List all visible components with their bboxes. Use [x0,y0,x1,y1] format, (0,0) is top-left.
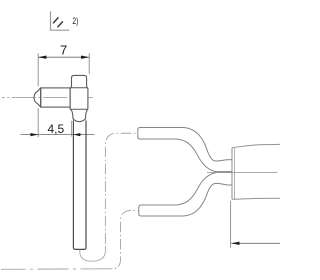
body cylinder bottom edge [232,198,280,199]
surface symbol slash 2 [58,21,63,27]
dimension 4,5 arrow right [73,133,80,136]
axis line right [207,171,277,173]
right dimension extension line [230,201,232,248]
ball tip [34,88,41,107]
stem extension line [71,121,73,137]
body cylinder top edge [232,144,280,147]
svg-text:2): 2) [72,16,78,26]
dimension 4,5 extension line [37,108,39,137]
surface symbol bracket [51,11,70,30]
dimension 4,5 line [21,134,95,136]
center axis line (stylus) [2,97,93,99]
right dimension line [231,242,280,244]
svg-text:4,5: 4,5 [48,122,65,136]
shaft [73,120,86,249]
dimension 7 arrow right [81,56,89,59]
wire hook at shaft bottom [80,246,106,261]
ferrule chamfer line [234,148,236,199]
upper arm [138,128,232,172]
dimension 7 extension line left [37,53,39,86]
svg-text:7: 7 [60,43,67,58]
right dimension arrow [231,242,239,245]
dimension 7 line [38,56,89,58]
surface symbol slash 1 [53,17,58,23]
lower arm [139,173,232,216]
shank cylinder [41,88,70,107]
throat joint line [215,171,233,173]
wire route A center line [105,133,137,246]
dimension 7 extension line right [88,53,90,74]
wire route B tail center line [1,268,112,271]
hex division line upper [70,87,87,89]
ball joint line [40,88,42,107]
dimension 7 arrow left [38,56,46,59]
dimension 4,5 arrow left [30,133,38,136]
wire route B center line [112,211,139,269]
ferrule left face [231,148,233,200]
hex division line lower [70,108,88,110]
hex body outline [70,75,88,121]
